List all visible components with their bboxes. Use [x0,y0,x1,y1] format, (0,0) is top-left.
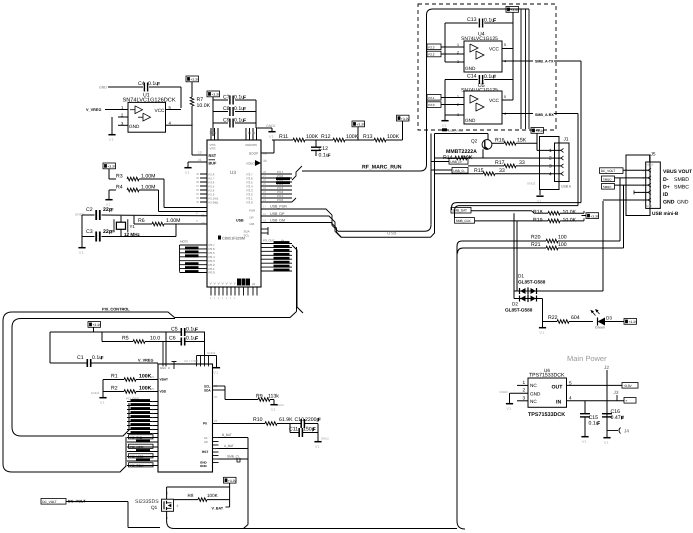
svg-text:7 8 9: 7 8 9 [209,131,216,135]
svg-text:33: 33 [519,160,525,166]
svg-text:100K: 100K [346,134,359,140]
svg-text:P2.3: P2.3 [428,45,435,49]
svg-text:C9: C9 [223,118,230,124]
svg-text:J3: J3 [614,390,619,395]
svg-text:+: + [625,399,627,403]
svg-text:V1: V1 [604,440,610,445]
svg-text:USB_DM: USB_DM [270,218,285,222]
svg-text:C8: C8 [223,106,230,112]
svg-text:16: 16 [263,218,267,222]
svg-text:VCC: VCC [155,108,166,113]
svg-text:10.0K: 10.0K [563,217,577,223]
svg-text:V: V [210,282,212,286]
svg-text:100K: 100K [207,493,219,498]
svg-text:V1: V1 [442,123,448,128]
svg-text:6 11 14: 6 11 14 [245,131,256,135]
svg-text:1: 1 [549,148,552,153]
svg-text:PCI_MOSI: PCI_MOSI [130,445,144,449]
svg-text:D+: D+ [663,185,670,191]
svg-text:10.0K: 10.0K [563,210,577,216]
svg-text:USB_DP: USB_DP [270,212,285,216]
svg-text:R3: R3 [116,174,123,180]
svg-text:SCL: SCL [244,233,250,237]
svg-text:F: F [243,107,246,113]
svg-text:C13: C13 [467,17,477,23]
svg-text:V1: V1 [315,444,321,449]
svg-text:+3.3V: +3.3V [228,479,238,483]
svg-text:C5: C5 [171,327,178,333]
svg-text:1: 1 [523,380,526,385]
svg-text:F: F [597,421,600,427]
svg-text:SMBC: SMBC [674,185,689,191]
svg-text:+3.3V: +3.3V [623,384,632,388]
svg-text:3: 3 [523,395,526,400]
svg-text:MOSI: MOSI [180,240,188,244]
svg-text:P2.2: P2.2 [428,53,435,57]
svg-text:F: F [621,416,624,422]
svg-text:GND: GND [465,66,476,71]
svg-text:R2: R2 [111,386,118,392]
svg-text:NC: NC [530,399,537,404]
svg-text:R8: R8 [188,493,194,498]
svg-text:R21: R21 [531,242,541,248]
svg-text:DM: DM [250,222,255,226]
svg-text:33: 33 [499,168,505,174]
svg-text:C2: C2 [86,207,93,213]
svg-text:P2.1: P2.1 [428,96,435,100]
svg-text:12 MHz: 12 MHz [124,232,141,237]
svg-text:V1: V1 [506,406,512,411]
svg-text:DC_VOLT: DC_VOLT [601,169,616,173]
svg-text:BUF: BUF [209,162,217,166]
svg-text:4x: 4x [281,239,285,243]
svg-text:D2: D2 [512,302,518,307]
svg-text:GND: GND [663,200,675,206]
svg-text:15: 15 [263,212,267,216]
svg-text:F: F [493,75,496,81]
svg-text:DP: DP [250,215,254,219]
svg-text:PXI_CONTROL: PXI_CONTROL [102,307,130,312]
svg-text:SMB_A-RX: SMB_A-RX [535,113,554,117]
svg-text:D-: D- [663,177,669,183]
svg-text:100K: 100K [387,134,400,140]
svg-text:J5: J5 [651,152,656,157]
svg-text:X2: X2 [204,440,208,444]
svg-text:C14: C14 [467,74,477,80]
svg-text:V1: V1 [582,439,588,444]
svg-text:U2 = F340: U2 = F340 [184,359,198,363]
svg-text:R10: R10 [253,417,263,423]
svg-text:GND2: GND2 [91,391,100,395]
svg-text:R20: R20 [531,235,541,241]
svg-text:+3.3V: +3.3V [107,165,117,169]
svg-text:GL85T-G588: GL85T-G588 [518,280,546,285]
svg-text:R17: R17 [495,160,505,166]
svg-text:61.9K: 61.9K [279,417,293,423]
svg-text:R1: R1 [111,374,118,380]
svg-text:F: F [195,336,198,342]
svg-text:USB: USB [387,231,396,236]
svg-text:V: V [230,282,232,286]
svg-text:SMBD: SMBD [674,177,689,183]
svg-text:J4: J4 [624,429,629,434]
svg-text:SMB_CLK: SMB_CLK [456,219,472,223]
svg-text:10.0: 10.0 [150,336,160,342]
svg-text:25: 25 [151,387,155,391]
svg-text:+3.3V: +3.3V [92,323,102,327]
svg-text:R13: R13 [363,134,373,140]
svg-text:100K: 100K [139,374,152,380]
svg-text:10.0K: 10.0K [197,103,211,109]
svg-text:VCC: VCC [489,47,500,52]
svg-text:C7: C7 [223,95,230,101]
svg-text:GND2: GND2 [500,390,509,394]
svg-text:20: 20 [214,395,218,399]
svg-text:F: F [328,153,331,159]
svg-text:GND2: GND2 [266,124,276,128]
svg-text:V1: V1 [213,370,219,375]
svg-text:Main Power: Main Power [567,354,607,363]
svg-text:P2.0: P2.0 [428,103,435,107]
svg-text:GND: GND [129,124,140,129]
svg-text:SMB_DAT: SMB_DAT [452,209,467,213]
svg-text:C12: C12 [319,146,329,152]
svg-text:+3.3V: +3.3V [628,320,638,324]
svg-text:R6: R6 [138,218,145,224]
svg-text:5: 5 [504,95,506,99]
svg-text:V: V [234,282,236,286]
svg-text:SN74LVC1G125: SN74LVC1G125 [461,36,498,42]
svg-text:4: 4 [177,504,179,508]
svg-text:V1: V1 [271,407,277,412]
svg-text:ID: ID [663,192,668,198]
svg-text:+3.3V: +3.3V [211,93,221,97]
svg-text:SMB_CL: SMB_CL [227,455,240,459]
svg-text:SDA: SDA [204,389,211,393]
svg-text:100K: 100K [306,134,319,140]
svg-text:PCI_SMB: PCI_SMB [130,435,142,439]
svg-text:100K: 100K [139,386,152,392]
svg-text:13: 13 [198,151,202,155]
svg-text:17: 17 [263,205,267,209]
svg-text:P3.0: P3.0 [247,200,254,204]
svg-text:V: V [226,282,228,286]
svg-text:SMBC: SMBC [603,185,613,189]
svg-text:J1: J1 [564,137,569,142]
svg-text:R11: R11 [279,134,288,140]
svg-text:VSS: VSS [210,147,216,151]
svg-text:C10: C10 [295,417,305,423]
svg-text:B_BAT: B_BAT [222,433,232,437]
svg-text:Q1: Q1 [151,505,158,510]
svg-text:VDD: VDD [160,390,167,394]
svg-text:100: 100 [558,235,567,241]
svg-text:USB_D-: USB_D- [453,169,465,173]
svg-text:GND: GND [200,464,208,468]
svg-text:J2: J2 [604,365,609,370]
svg-text:GND: GND [465,118,476,123]
svg-text:22: 22 [214,419,218,423]
svg-text:C11: C11 [289,427,298,433]
svg-text:C4: C4 [138,81,145,87]
svg-text:R19: R19 [533,217,543,223]
svg-text:GND: GND [160,366,166,370]
svg-text:P0_OUT: P0_OUT [263,239,275,243]
svg-text:P0: P0 [203,422,207,426]
svg-text:V_VREG: V_VREG [86,108,101,112]
svg-text:TPS71533DCK: TPS71533DCK [528,412,565,418]
svg-text:IN: IN [556,399,561,405]
svg-text:V1: V1 [79,250,85,255]
svg-text:R18: R18 [533,210,543,216]
svg-text:GND2: GND2 [527,182,536,186]
svg-text:P2.0/B1: P2.0/B1 [209,201,219,205]
svg-text:2: 2 [549,156,552,161]
svg-text:V_VREG: V_VREG [138,359,153,363]
svg-text:OUT: OUT [552,385,564,391]
svg-text:VCC: VCC [489,98,500,103]
svg-text:F: F [493,18,496,24]
svg-text:NC: NC [530,383,537,388]
svg-text:V1: V1 [185,170,191,175]
svg-text:R5: R5 [122,336,129,342]
svg-text:D1: D1 [518,274,524,279]
svg-text:F: F [111,208,114,214]
svg-text:VBAT: VBAT [160,378,168,382]
svg-text:1: 1 [457,43,459,47]
svg-text:C1: C1 [77,355,84,361]
svg-text:Q2: Q2 [471,139,478,144]
svg-text:USB_PUR: USB_PUR [448,129,464,133]
svg-text:C3: C3 [86,229,93,235]
svg-text:GND: GND [99,86,107,90]
svg-text:V: V [214,282,216,286]
svg-text:F: F [243,95,246,101]
svg-text:4: 4 [549,171,552,176]
svg-text:21: 21 [198,158,202,162]
svg-text:38: 38 [263,159,267,163]
svg-text:RST: RST [209,154,217,158]
svg-text:GND: GND [677,200,689,206]
svg-text:604: 604 [571,315,580,321]
svg-text:V_BAT: V_BAT [212,507,224,511]
svg-text:V: V [218,282,220,286]
svg-text:22: 22 [252,282,256,286]
svg-text:DC_VOLT: DC_VOLT [42,500,57,504]
svg-text:5: 5 [569,381,572,386]
svg-text:+3.3V: +3.3V [590,214,600,218]
svg-text:SMB_A-TX: SMB_A-TX [535,60,554,64]
svg-text:GND2: GND2 [207,351,216,355]
svg-text:2: 2 [523,388,526,393]
svg-text:C6: C6 [169,336,176,342]
svg-text:USB_PUR: USB_PUR [270,205,287,209]
svg-text:F: F [157,82,160,88]
svg-text:VBUS VOUT: VBUS VOUT [663,169,692,175]
svg-text:RST: RST [202,450,208,454]
svg-text:V1: V1 [539,330,545,335]
svg-text:4: 4 [569,396,572,401]
svg-text:100: 100 [558,242,567,248]
svg-text:GND2: GND2 [321,437,329,441]
svg-text:SN74LVC1G126DCK: SN74LVC1G126DCK [123,98,176,104]
svg-text:V1: V1 [109,137,115,142]
svg-text:F: F [101,356,104,362]
svg-text:113k: 113k [268,394,279,400]
svg-text:F: F [243,118,246,124]
svg-text:5: 5 [504,43,506,47]
svg-text:GND: GND [646,205,652,208]
svg-text:V1: V1 [269,134,275,139]
svg-text:PUR: PUR [249,208,256,212]
svg-text:Green: Green [595,326,605,330]
svg-text:USB_D+: USB_D+ [450,160,463,164]
svg-text:RF_MARC_RUN: RF_MARC_RUN [362,165,402,171]
svg-text:USB A: USB A [561,184,572,188]
svg-text:GL85T-G588: GL85T-G588 [505,308,533,313]
svg-text:USB: USB [236,219,244,223]
svg-text:33: 33 [196,200,200,204]
svg-text:P0.0: P0.0 [209,271,216,275]
svg-text:R22: R22 [548,315,558,321]
svg-text:D: D [168,366,170,370]
svg-text:R15: R15 [474,168,484,174]
svg-text:F: F [111,230,114,236]
svg-text:21: 21 [263,198,267,202]
svg-text:1.00M: 1.00M [166,218,180,224]
svg-text:+3.3V: +3.3V [356,123,366,127]
svg-text:V: V [222,282,224,286]
svg-text:+3.3V: +3.3V [510,8,520,12]
svg-text:SN74LVC1G125: SN74LVC1G125 [461,88,498,94]
svg-text:A_BAT: A_BAT [224,444,234,448]
svg-text:+3.3V: +3.3V [401,117,411,121]
svg-text:R16: R16 [495,138,505,144]
svg-text:F: F [195,327,198,333]
svg-text:U3: U3 [230,170,236,175]
svg-text:+3.3V: +3.3V [535,129,545,133]
svg-text:3: 3 [549,164,552,169]
svg-text:USB mini-B: USB mini-B [652,211,679,217]
svg-text:MMBT2222A: MMBT2222A [446,149,477,155]
svg-text:D3: D3 [606,316,612,321]
svg-text:V1: V1 [100,400,106,405]
svg-text:VBUS: VBUS [646,164,653,167]
svg-text:24: 24 [151,375,155,379]
svg-text:R12: R12 [321,134,331,140]
svg-text:PCI_SCLK: PCI_SCLK [130,463,144,467]
svg-text:15K: 15K [517,138,527,144]
svg-text:+3.3V: +3.3V [190,78,200,82]
svg-text:Y1: Y1 [130,224,136,229]
svg-text:C8051F320M: C8051F320M [222,237,245,241]
svg-text:PCI_MISO: PCI_MISO [130,454,144,458]
svg-text:R4: R4 [116,185,123,191]
svg-text:P3.0: P3.0 [277,198,284,202]
svg-text:SMBD: SMBD [603,177,613,181]
svg-text:BOOP: BOOP [249,152,258,156]
svg-text:VBS: VBS [251,143,257,147]
svg-text:GND: GND [530,391,541,396]
